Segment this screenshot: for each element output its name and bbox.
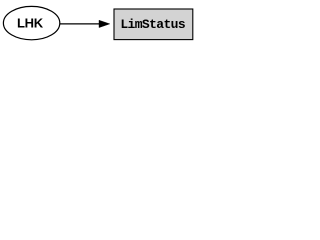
arrowhead [99,20,110,27]
node LimStatus (box) [114,9,193,40]
wire: edge LHK -> LimStatus [60,23,100,25]
node LHK (ellipse) [3,6,59,39]
svg-text:LHK: LHK [17,16,44,31]
svg-text:LimStatus: LimStatus [120,17,185,32]
